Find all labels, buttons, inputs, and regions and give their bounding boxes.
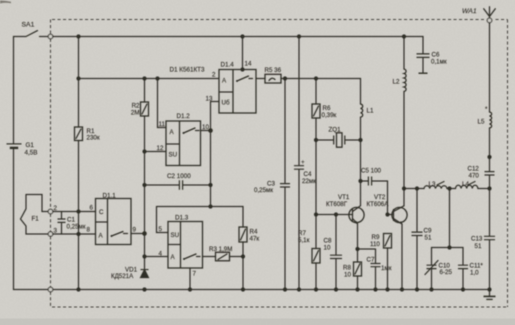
switch SA1 — [14, 31, 49, 37]
wire second rail (left part to D1.4 pin2) — [79, 78, 220, 80]
wire VT1 base — [316, 214, 353, 216]
wire pin2 to D1.1 pin 6 — [53, 211, 96, 213]
terminal circle node (shield feedthrough, pin 3) — [48, 232, 53, 237]
node rail / pin14 — [240, 34, 244, 38]
node pin10 / interstage column — [208, 128, 213, 133]
wire VT1 emitter — [357, 224, 359, 290]
wire rail2 corner into L1 — [360, 79, 362, 105]
wire D1.1 output pin 9 — [131, 233, 145, 235]
wire tank loop top — [432, 247, 464, 249]
node bus tank right — [461, 287, 465, 291]
wire ground bus — [14, 289, 490, 291]
node rail / C4 column — [297, 34, 301, 38]
trimmer capacitor C10 — [427, 265, 437, 268]
node bus R4 column — [241, 287, 245, 291]
node above C12 — [487, 155, 491, 159]
resistor R9 — [387, 248, 389, 290]
node bus antenna ground corner — [487, 287, 491, 291]
node C5 branch — [358, 179, 362, 183]
node bus R7 column — [314, 287, 318, 291]
wire pin3 to D1.1 pin 8 — [53, 233, 96, 235]
wire D1.2 output pin 10 — [201, 130, 211, 132]
node emitter / C7 branch — [355, 247, 359, 251]
wire C5 to VT2 base — [388, 181, 394, 215]
wire R2 column — [144, 79, 146, 269]
node bus C8 column — [334, 287, 338, 291]
wire pin 14 supply — [242, 37, 244, 70]
node bus C7 column — [373, 287, 377, 291]
node ZQ1 left — [314, 138, 318, 142]
node rail2 / R6 column — [314, 76, 318, 80]
terminal circle node (shield feedthrough, pin 2) — [48, 209, 53, 214]
terminal circle node (antenna feedthrough) — [487, 18, 492, 23]
wire D1.3 output — [203, 256, 216, 258]
wire left battery column — [13, 37, 15, 290]
wire D1.3 control net — [157, 207, 244, 233]
wire R3 to R4 node — [230, 256, 244, 258]
node interstage column / control net — [208, 204, 212, 208]
node tank branch — [447, 186, 451, 190]
transistor VT2 — [392, 207, 407, 222]
node R4 / R3 out — [241, 254, 245, 258]
antenna WA1 — [484, 7, 496, 18]
node C8 branch — [334, 212, 338, 216]
wire pin 12 — [145, 151, 167, 153]
capacitor C8 — [330, 255, 342, 258]
wire output line — [404, 188, 490, 190]
node bus R1 column — [76, 287, 80, 291]
node bus R8 column — [355, 287, 359, 291]
wire pin 7 ground — [189, 268, 191, 290]
node output line / antenna column — [487, 186, 491, 190]
wire rail corner into C6 — [422, 37, 424, 54]
wire C7 branch — [358, 249, 376, 290]
shield enclosure dashed top — [52, 19, 484, 21]
wire VT2 emitter — [401, 224, 403, 290]
shield dashed top-right stub — [496, 19, 508, 21]
battery G1 — [7, 143, 22, 145]
node bus VD1 column — [142, 287, 146, 291]
scan artifact top-left — [0, 0, 11, 3]
node R2 column / pin12 — [142, 149, 146, 153]
wire L5 to C12 — [489, 128, 491, 171]
node bus pin7 — [188, 287, 192, 291]
wire L1 to VT1 collector — [360, 117, 362, 205]
node VT2 base / R9 — [385, 212, 389, 216]
capacitor C9 — [412, 232, 423, 235]
node C9 branch — [415, 186, 419, 190]
IC D1.4 — [219, 70, 256, 114]
wire L2 column / VT2 collector — [403, 37, 405, 206]
quartz ZQ1 — [316, 139, 361, 141]
shield enclosure dashed left — [50, 20, 52, 308]
inductor L1 — [361, 104, 363, 117]
node bus C3 column — [283, 287, 287, 291]
wire C3 column — [284, 79, 286, 290]
resistor R4 — [242, 207, 244, 290]
resistor R1 — [75, 127, 83, 141]
wire C4 column — [298, 37, 300, 290]
D1.3 switch contact — [184, 254, 200, 259]
wire R5 to rail2 right — [281, 78, 361, 80]
wire to C13 — [489, 189, 491, 236]
capacitor C7 — [371, 264, 381, 267]
wire interstage column (D1.4 pin13 down to D1.3 net) — [210, 102, 212, 207]
node tank top — [447, 245, 451, 249]
wire C9 branch — [416, 189, 418, 290]
wire R6 column — [315, 79, 317, 290]
wire pin 13 — [211, 101, 220, 103]
D1.2 switch contact — [184, 128, 200, 133]
node R1 column / pin3 wire — [76, 232, 80, 236]
capacitor C12 — [485, 172, 495, 175]
shield enclosure dashed bottom — [52, 306, 508, 308]
node bus C4 column — [297, 287, 301, 291]
node rail/R1 top — [76, 34, 80, 38]
bottom scan shading — [0, 319, 515, 325]
IC D1.3 — [168, 222, 203, 269]
D1.1 switch contact — [112, 232, 128, 237]
node bus VT2 emitter — [400, 287, 404, 291]
ground symbol — [489, 290, 491, 297]
wire C8 branch — [335, 215, 337, 290]
terminal circle node (shield feedthrough, bottom) — [48, 287, 53, 292]
node C2 right — [208, 183, 212, 187]
node base rail / R7 column — [314, 212, 318, 216]
node bus tank left — [429, 287, 433, 291]
node C2 left — [142, 183, 146, 187]
wire top supply rail — [53, 36, 423, 38]
inductor L2 — [404, 69, 406, 92]
capacitor C5 — [361, 180, 388, 182]
capacitor C11 — [458, 265, 468, 268]
node bus C9 column — [415, 287, 419, 291]
resistor R2 — [141, 102, 149, 116]
resistor R6 — [312, 104, 320, 118]
wire tank left branch — [431, 248, 433, 290]
wire tank right branch — [462, 248, 464, 290]
wire C12 to output node — [489, 175, 491, 188]
sensor F1 — [21, 195, 49, 235]
transistor VT1 — [349, 207, 364, 222]
wire R1 column — [78, 37, 80, 290]
node rail2/R1 — [76, 76, 80, 80]
capacitor C13 — [484, 236, 495, 239]
capacitor C4 (electrolytic) — [294, 166, 304, 170]
node collector / output line — [402, 186, 406, 190]
capacitor C2 — [145, 184, 211, 186]
diode VD1 — [141, 270, 149, 278]
node R1 column / pin2 wire — [76, 209, 80, 213]
node pin14 at box — [240, 67, 244, 71]
wire D1.4 output — [256, 78, 265, 80]
terminal circle node (shield feedthrough, top) — [48, 34, 53, 39]
inductor L4 — [456, 185, 478, 188]
inductor L5 — [490, 112, 492, 128]
wire antenna column — [489, 23, 491, 112]
node rail / L2 — [402, 34, 406, 38]
wire C13 to bus — [489, 240, 491, 289]
resistor R7 — [312, 249, 320, 264]
capacitor C1 — [61, 212, 63, 235]
node D1.1 out / VD1 column — [142, 231, 147, 236]
inductor L3 — [424, 186, 447, 189]
D1.4 switch contact — [237, 76, 253, 81]
node rail2 / pin11 wire — [155, 76, 159, 80]
node rail2 / R2 — [142, 76, 146, 80]
node ZQ1 right — [358, 138, 362, 142]
wire pin 4 — [145, 256, 169, 258]
resistor R8 — [354, 262, 362, 276]
wire F1 top contact — [42, 211, 48, 213]
IC D1.2 — [166, 121, 201, 166]
node bus R9 column — [385, 287, 389, 291]
resistor R3 — [216, 252, 230, 260]
shield enclosure dashed right — [507, 20, 509, 308]
capacitor C6 — [417, 54, 430, 58]
node R5 out / C3 column — [283, 76, 287, 80]
node VD1 column / pin4 — [142, 254, 146, 258]
resistor R5 — [265, 74, 281, 83]
wire tank stem — [449, 189, 451, 248]
capacitor C3 — [280, 184, 290, 187]
wire pin 11 feed — [158, 79, 167, 128]
IC D1.1 (K561KT3 switch) — [96, 199, 132, 245]
